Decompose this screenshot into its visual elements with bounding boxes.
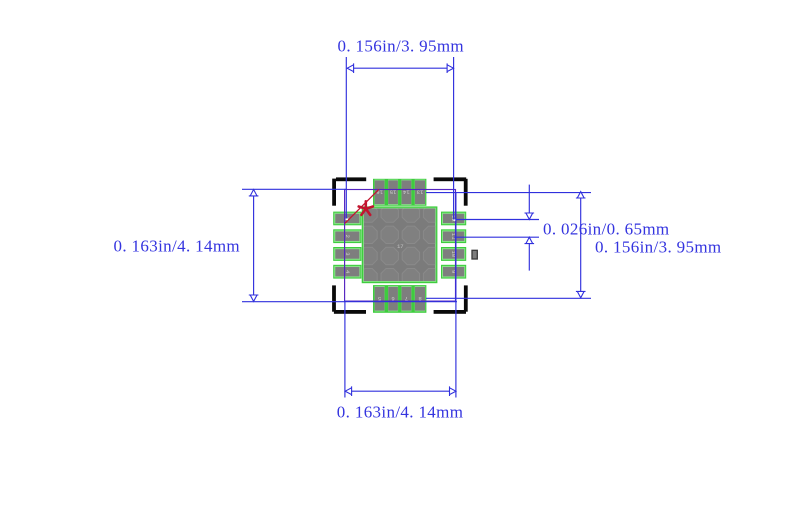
svg-text:17: 17: [397, 243, 404, 250]
svg-text:0. 163in/4. 14mm: 0. 163in/4. 14mm: [114, 237, 241, 256]
svg-text:0. 156in/3. 95mm: 0. 156in/3. 95mm: [595, 238, 722, 257]
svg-text:0. 026in/0. 65mm: 0. 026in/0. 65mm: [543, 220, 670, 239]
svg-text:0. 163in/4. 14mm: 0. 163in/4. 14mm: [337, 403, 464, 422]
svg-text:0. 156in/3. 95mm: 0. 156in/3. 95mm: [338, 37, 465, 56]
